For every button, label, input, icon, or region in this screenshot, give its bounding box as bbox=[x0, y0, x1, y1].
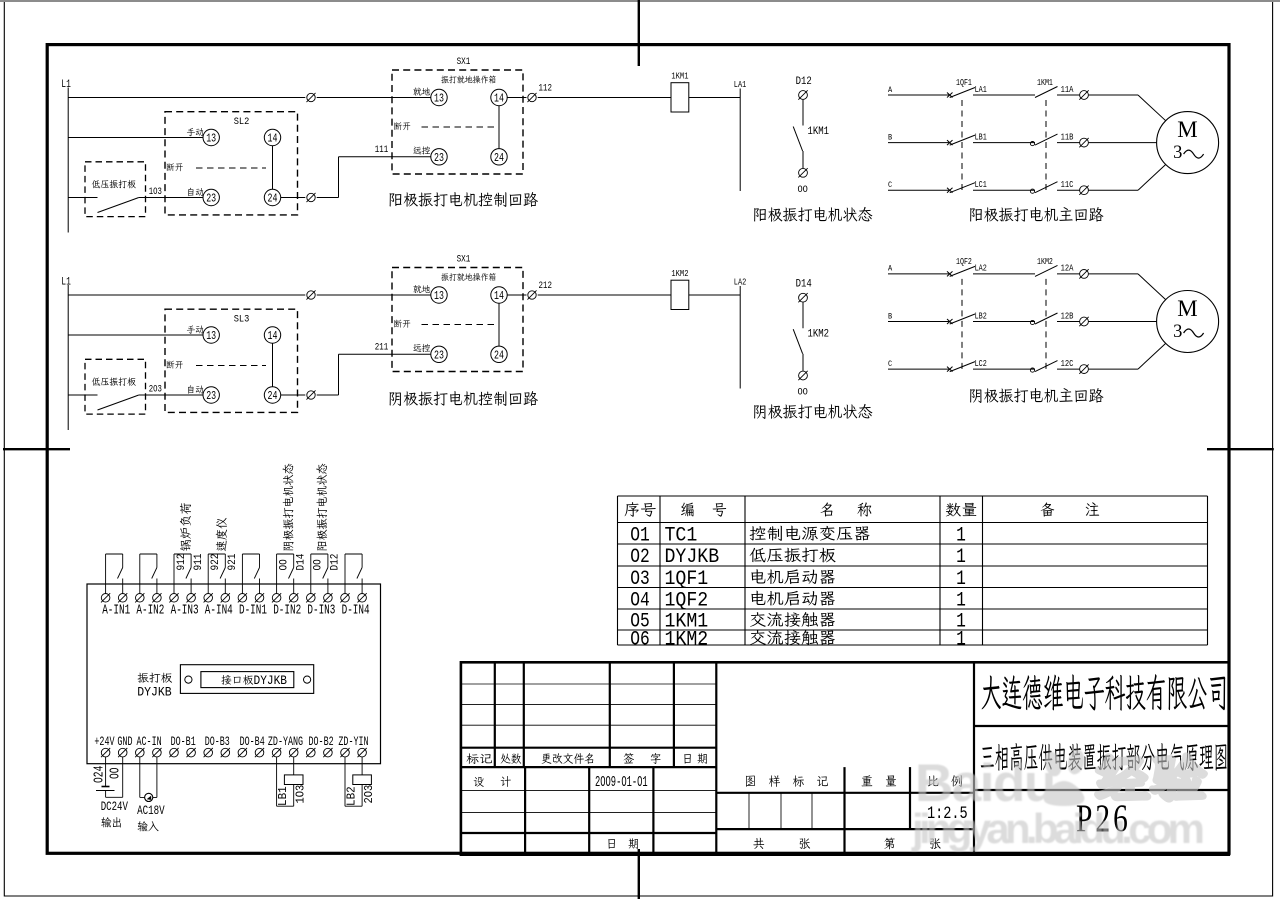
svg-text:C: C bbox=[888, 180, 892, 190]
svg-text:GND: GND bbox=[117, 736, 132, 750]
svg-text:SL3: SL3 bbox=[234, 313, 250, 325]
svg-text:212: 212 bbox=[539, 280, 552, 291]
svg-text:A: A bbox=[888, 85, 892, 95]
svg-text:14: 14 bbox=[268, 331, 278, 344]
svg-text:11A: 11A bbox=[1061, 85, 1074, 95]
svg-text:D-IN4: D-IN4 bbox=[342, 602, 370, 618]
svg-text:LB1: LB1 bbox=[975, 133, 987, 143]
svg-text:OO: OO bbox=[107, 767, 123, 779]
svg-text:SX1: SX1 bbox=[457, 253, 471, 265]
svg-text:DYJKB: DYJKB bbox=[137, 685, 171, 700]
svg-text:D12: D12 bbox=[796, 76, 812, 88]
svg-text:ZD-YANG: ZD-YANG bbox=[268, 736, 303, 750]
svg-text:DC24V: DC24V bbox=[101, 801, 129, 815]
svg-text:912: 912 bbox=[175, 554, 188, 571]
svg-text:112: 112 bbox=[539, 83, 552, 94]
svg-text:12B: 12B bbox=[1061, 312, 1074, 322]
svg-text:DO-B4: DO-B4 bbox=[240, 736, 265, 750]
svg-text:D14: D14 bbox=[796, 279, 812, 291]
svg-text:1O3: 1O3 bbox=[149, 186, 162, 197]
svg-text:D-IN1: D-IN1 bbox=[239, 602, 267, 618]
svg-text:M: M bbox=[1177, 296, 1197, 321]
svg-text:2OO9-O1-O1: 2OO9-O1-O1 bbox=[595, 774, 648, 791]
svg-text:LC1: LC1 bbox=[975, 180, 987, 190]
svg-text:DYJKB: DYJKB bbox=[254, 673, 287, 688]
svg-text:jingyan.baidu.com: jingyan.baidu.com bbox=[911, 805, 1205, 852]
svg-text:O1: O1 bbox=[630, 525, 650, 547]
svg-text:DO-B1: DO-B1 bbox=[171, 736, 196, 750]
svg-text:LB2: LB2 bbox=[975, 312, 987, 322]
svg-text:13: 13 bbox=[206, 134, 216, 147]
svg-text:12C: 12C bbox=[1061, 359, 1074, 369]
svg-text:SL2: SL2 bbox=[234, 115, 250, 127]
svg-text:DYJKB: DYJKB bbox=[665, 545, 720, 568]
svg-text:1QF1: 1QF1 bbox=[665, 567, 709, 590]
svg-text:3: 3 bbox=[1173, 322, 1182, 342]
svg-text:A-IN1: A-IN1 bbox=[102, 602, 130, 618]
svg-text:211: 211 bbox=[375, 342, 388, 353]
svg-text:LB1: LB1 bbox=[278, 786, 290, 806]
svg-text:1: 1 bbox=[956, 590, 966, 612]
svg-text:922: 922 bbox=[209, 554, 222, 571]
svg-text:OO: OO bbox=[798, 386, 809, 398]
svg-text:M: M bbox=[1177, 117, 1197, 142]
svg-text:DO-B3: DO-B3 bbox=[205, 736, 230, 750]
svg-text:911: 911 bbox=[192, 554, 205, 571]
svg-text:1O3: 1O3 bbox=[295, 785, 308, 804]
svg-text:O3: O3 bbox=[630, 569, 650, 591]
svg-text:11C: 11C bbox=[1061, 180, 1074, 190]
svg-text:1QF1: 1QF1 bbox=[956, 78, 972, 88]
svg-text:OO: OO bbox=[798, 183, 809, 195]
svg-text:D12: D12 bbox=[329, 554, 342, 571]
svg-text:24: 24 bbox=[268, 391, 278, 404]
svg-text:O4: O4 bbox=[630, 590, 650, 612]
svg-text:LA1: LA1 bbox=[975, 85, 987, 95]
svg-text:23: 23 bbox=[434, 153, 444, 166]
svg-text:L1: L1 bbox=[61, 275, 71, 288]
svg-text:OO: OO bbox=[278, 559, 291, 570]
svg-text:D-IN3: D-IN3 bbox=[307, 602, 335, 618]
svg-text:13: 13 bbox=[434, 94, 444, 107]
svg-text:1QF2: 1QF2 bbox=[956, 257, 972, 267]
svg-text:B: B bbox=[888, 133, 892, 143]
svg-text:TC1: TC1 bbox=[665, 524, 698, 547]
svg-text:13: 13 bbox=[434, 291, 444, 304]
svg-text:O6: O6 bbox=[630, 629, 650, 651]
svg-text:LB2: LB2 bbox=[346, 786, 358, 806]
svg-text:+24V: +24V bbox=[94, 736, 115, 750]
svg-text:1KM1: 1KM1 bbox=[671, 72, 688, 82]
svg-text:23: 23 bbox=[434, 350, 444, 363]
svg-text:AC18V: AC18V bbox=[137, 805, 165, 819]
svg-text:DO-B2: DO-B2 bbox=[309, 736, 334, 750]
svg-text:O24: O24 bbox=[91, 766, 107, 783]
svg-text:1KM1: 1KM1 bbox=[1037, 78, 1053, 88]
svg-text:B: B bbox=[888, 312, 892, 322]
svg-text:14: 14 bbox=[494, 94, 504, 107]
svg-text:1: 1 bbox=[956, 629, 966, 651]
svg-text:3: 3 bbox=[1173, 143, 1182, 163]
svg-text:14: 14 bbox=[494, 291, 504, 304]
svg-text:921: 921 bbox=[226, 554, 239, 571]
svg-text:1: 1 bbox=[956, 569, 966, 591]
svg-text:11B: 11B bbox=[1061, 133, 1074, 143]
svg-text:O2: O2 bbox=[630, 547, 650, 569]
svg-text:1QF2: 1QF2 bbox=[665, 589, 709, 612]
svg-text:1KM2: 1KM2 bbox=[671, 269, 688, 279]
svg-text:24: 24 bbox=[494, 350, 504, 363]
svg-text:1KM2: 1KM2 bbox=[665, 628, 709, 651]
svg-text:SX1: SX1 bbox=[457, 55, 471, 67]
svg-text:AC-IN: AC-IN bbox=[137, 736, 162, 750]
svg-text:23: 23 bbox=[206, 391, 216, 404]
svg-text:D-IN2: D-IN2 bbox=[273, 602, 301, 618]
svg-text:1KM1: 1KM1 bbox=[808, 126, 830, 138]
svg-text:24: 24 bbox=[268, 194, 278, 207]
svg-text:A-IN3: A-IN3 bbox=[171, 602, 199, 618]
svg-text:LA2: LA2 bbox=[975, 264, 987, 274]
svg-text:1KM2: 1KM2 bbox=[1037, 257, 1053, 267]
svg-text:L1: L1 bbox=[61, 78, 71, 91]
svg-text:A: A bbox=[888, 264, 892, 274]
svg-text:A-IN2: A-IN2 bbox=[136, 602, 164, 618]
svg-text:OO: OO bbox=[312, 559, 325, 570]
svg-text:D14: D14 bbox=[295, 554, 308, 571]
svg-text:1: 1 bbox=[956, 525, 966, 547]
svg-text:23: 23 bbox=[206, 194, 216, 207]
svg-text:C: C bbox=[888, 359, 892, 369]
svg-text:1: 1 bbox=[956, 547, 966, 569]
svg-text:A-IN4: A-IN4 bbox=[205, 602, 233, 618]
svg-text:111: 111 bbox=[375, 144, 388, 155]
svg-text:1KM2: 1KM2 bbox=[808, 329, 830, 341]
svg-text:2O3: 2O3 bbox=[364, 785, 377, 804]
svg-text:24: 24 bbox=[494, 153, 504, 166]
svg-text:LC2: LC2 bbox=[975, 359, 987, 369]
svg-text:12A: 12A bbox=[1061, 264, 1074, 274]
svg-text:2O3: 2O3 bbox=[149, 384, 162, 395]
svg-text:14: 14 bbox=[268, 134, 278, 147]
svg-text:ZD-YIN: ZD-YIN bbox=[338, 736, 368, 750]
svg-text:13: 13 bbox=[206, 331, 216, 344]
